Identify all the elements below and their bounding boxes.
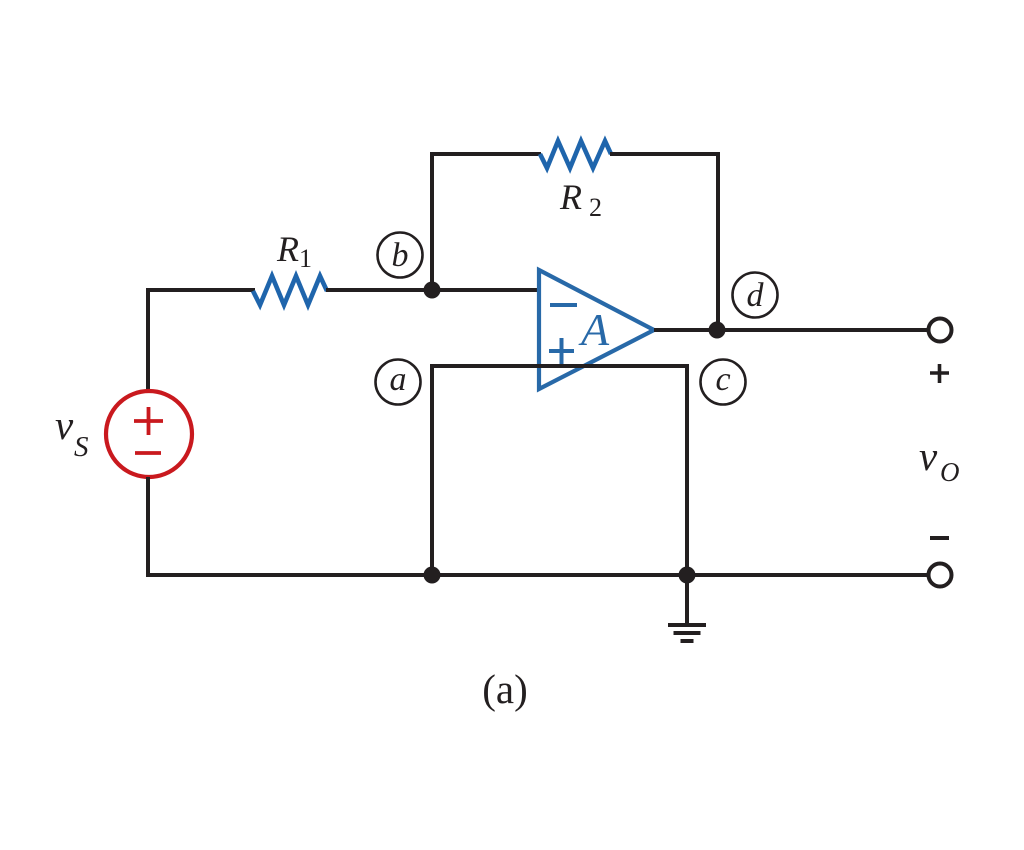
svg-text:v: v <box>919 433 938 479</box>
wire: feedback drop to node d <box>716 152 720 330</box>
svg-text:S: S <box>74 431 89 463</box>
wire: feedback riser from node b <box>430 152 434 292</box>
wire: top right from R2 <box>610 152 720 156</box>
output plus sign <box>930 371 949 375</box>
op-amp inverting pin minus sign <box>550 303 577 307</box>
svg-text:R: R <box>276 229 299 269</box>
svg-text:(a): (a) <box>482 666 528 712</box>
node b label circle <box>378 233 423 278</box>
node D junction dot <box>709 322 726 339</box>
svg-text:2: 2 <box>589 193 602 222</box>
wire: R1 to op-amp inverting input <box>326 288 540 292</box>
voltage source minus sign <box>135 451 161 455</box>
svg-text:b: b <box>392 237 409 274</box>
junction dot below node a <box>424 567 441 584</box>
voltage source plus sign <box>134 419 163 423</box>
node a label circle <box>376 360 421 405</box>
wire: op-amp output to terminal <box>654 328 928 332</box>
op-amp non-inverting pin plus sign <box>549 349 574 353</box>
svg-text:c: c <box>715 361 730 398</box>
wire: node c drop <box>685 364 689 575</box>
output terminal top open circle <box>929 319 952 342</box>
wire: vS bottom lead <box>146 477 150 577</box>
node B junction dot <box>424 282 441 299</box>
svg-text:d: d <box>747 277 765 314</box>
wire: node a drop <box>430 364 434 575</box>
node d label circle <box>733 273 778 318</box>
voltage source vS circle <box>106 391 192 477</box>
svg-text:a: a <box>390 361 407 398</box>
wire: bottom rail <box>146 573 928 577</box>
resistor R2 <box>540 141 611 168</box>
resistor R1 <box>253 276 327 305</box>
ground <box>685 575 689 624</box>
svg-text:v: v <box>55 402 74 448</box>
junction dot ground node <box>679 567 696 584</box>
output minus sign <box>930 536 949 540</box>
output terminal bottom open circle <box>929 564 952 587</box>
wire: top left to R2 <box>430 152 541 156</box>
node c label circle <box>701 360 746 405</box>
svg-text:1: 1 <box>299 244 312 273</box>
svg-text:O: O <box>940 457 960 487</box>
svg-text:A: A <box>578 304 610 355</box>
wire: vS top lead up and right to R1 <box>148 290 255 391</box>
op-amp U1 triangle <box>539 270 654 389</box>
svg-text:R: R <box>559 177 582 217</box>
wire: non-inverting input rail <box>432 364 686 368</box>
